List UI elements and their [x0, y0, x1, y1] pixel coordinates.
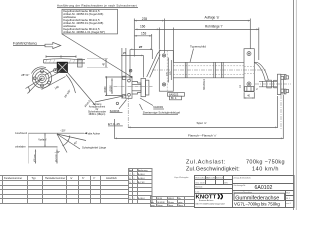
svg-text:von 1: von 1	[286, 203, 290, 205]
bracket top dimension	[46, 56, 76, 58]
svg-text:Anschluß: Anschluß	[106, 176, 117, 180]
diagonal dim 40	[68, 73, 96, 109]
Zul.Achslast text	[186, 159, 285, 172]
svg-text:6A0102: 6A0102	[255, 185, 273, 191]
angle 28 dimension	[21, 73, 42, 94]
wheel flange right	[277, 74, 286, 94]
svg-text:Änderung: Änderung	[138, 169, 148, 172]
svg-text:alte Achse: alte Achse	[88, 132, 101, 136]
svg-text:140 km/h: 140 km/h	[252, 167, 279, 173]
svg-text:Norm: Norm	[178, 204, 183, 207]
angle labels	[55, 128, 79, 153]
dim 27 (middle)	[130, 45, 152, 59]
alte Achse label	[84, 132, 101, 136]
Achtung leader	[95, 95, 127, 102]
dim 166	[135, 25, 159, 31]
flange inner dims	[167, 58, 173, 83]
svg-text:Zweiarmige Schräglenkbügel: Zweiarmige Schräglenkbügel	[143, 110, 181, 114]
frame right border	[293, 0, 295, 210]
svg-text:Spur 'o': Spur 'o'	[197, 121, 208, 125]
label ET 0.-45	[108, 122, 123, 126]
axle right flange plate	[244, 49, 254, 91]
angle diagram: unbeladen line	[15, 147, 58, 149]
middle view hub	[132, 82, 141, 95]
svg-text:Mu: Mu	[178, 198, 181, 200]
revision table	[129, 169, 153, 204]
svg-text:Ausführung der Radschrauben je: Ausführung der Radschrauben je nach Schr…	[57, 3, 137, 7]
dim 235	[134, 17, 164, 22]
svg-text:1: 1	[151, 198, 152, 200]
svg-text:Muster: Muster	[168, 201, 174, 204]
svg-text:Gummifederachse: Gummifederachse	[235, 195, 279, 201]
parts table headers	[4, 176, 117, 180]
middle view wheel disc	[141, 78, 149, 96]
notes leader to wheel studs	[62, 34, 131, 77]
svg-text:28°±1°: 28°±1°	[21, 73, 29, 77]
Fahrtrichtung label	[13, 40, 45, 45]
svg-text:04.03.86: 04.03.86	[157, 202, 164, 204]
title Gummifederachse	[234, 193, 284, 201]
svg-text:Ø130: Ø130	[104, 86, 107, 93]
svg-text:153: 153	[141, 32, 147, 36]
dim 146	[42, 77, 66, 91]
bottom extension lines	[115, 95, 284, 139]
dim 45 deg	[63, 75, 75, 99]
middle view vertical plate edge	[121, 48, 123, 99]
axle left flange plate	[159, 51, 173, 92]
right plate foot	[245, 87, 254, 92]
dim Spur o	[128, 121, 277, 128]
svg-text:Bl. 1: Bl. 1	[286, 198, 290, 200]
dim Flansch-Flansch x	[115, 133, 284, 139]
svg-text:Å 7.03: Å 7.03	[138, 181, 145, 184]
svg-text:Å 08-4: Å 08-4	[138, 173, 145, 176]
stub axle	[255, 80, 291, 88]
svg-text:Zul.Achslast:: Zul.Achslast:	[186, 159, 226, 165]
svg-text:166: 166	[140, 25, 146, 29]
dia dimension arrows	[104, 76, 126, 96]
svg-text:Ø100: Ø100	[109, 85, 112, 92]
Fahrtrichtung arrow	[45, 42, 61, 48]
label 6A0096	[110, 100, 127, 113]
svg-text:Rohrlänge 'l': Rohrlänge 'l'	[205, 24, 223, 28]
hub circles	[32, 67, 52, 88]
left detail view: bracket plate	[44, 59, 86, 63]
dim 27 (axle)	[139, 45, 143, 49]
svg-text:235: 235	[142, 17, 148, 21]
middle view flange plate	[123, 76, 133, 98]
svg-text:25: 25	[123, 51, 127, 55]
svg-text:Urspr./Weitergabe: Urspr./Weitergabe	[174, 176, 188, 179]
svg-text:unbeladen: unbeladen	[15, 147, 26, 149]
svg-text:zunehmend: zunehmend	[15, 133, 28, 135]
title block frame	[195, 176, 295, 208]
svg-text:Herstellernummer: Herstellernummer	[45, 176, 65, 180]
svg-text:Blatt: Blatt	[286, 192, 290, 195]
svg-text:4864.5: 4864.5	[168, 198, 174, 200]
angle diagram: Vorlauf dim	[38, 133, 46, 147]
KNOTT logo	[196, 194, 226, 206]
notes block title	[57, 3, 138, 7]
vertical dim <=55mm	[28, 133, 36, 163]
dim Rohrlaenge l	[159, 24, 258, 30]
angle diagram: fan lines	[57, 134, 86, 153]
dim extension lines top	[134, 19, 258, 63]
svg-text:gez: gez	[151, 202, 154, 204]
svg-text:gepr: gepr	[151, 204, 155, 207]
notes box text	[63, 9, 105, 34]
title block small labels	[195, 176, 290, 205]
svg-text:Å 08-4: Å 08-4	[138, 177, 145, 180]
Achtung note block	[88, 103, 106, 116]
middle view hub centerline	[114, 86, 153, 88]
svg-text:Name: Name	[168, 205, 173, 207]
svg-text:Artikel-Nr. 43686-1.01 (Kegel: Artikel-Nr. 43686-1.01 (Kegel 60°)	[63, 30, 105, 34]
svg-text:60x60x4: 60x60x4	[202, 79, 206, 90]
swing arm	[45, 68, 61, 78]
wheel bolt nubs	[286, 76, 289, 93]
dim Auflage a	[165, 16, 251, 22]
notes box	[62, 9, 118, 34]
svg-text:Auflage 'a': Auflage 'a'	[205, 16, 220, 20]
svg-text:Typenschild: Typenschild	[190, 45, 206, 49]
angle diagram: upper ref line	[15, 133, 84, 135]
svg-text:KNOTT GmbH D-8202 Degerndo: KNOTT GmbH D-8202 Degerndorf	[196, 202, 226, 205]
svg-text:VG7L−700kg bis 750kg: VG7L−700kg bis 750kg	[234, 202, 280, 207]
svg-text:1:2,5: 1:2,5	[195, 192, 199, 194]
vertical dim <=12mm	[54, 147, 57, 163]
middle view arm to axle	[147, 50, 161, 78]
svg-text:Vorlauf: Vorlauf	[38, 137, 46, 141]
svg-text:≤12 mm: ≤12 mm	[54, 154, 57, 162]
svg-text:6A0093: 6A0093	[153, 105, 163, 109]
axle tube	[152, 62, 266, 78]
bracket height dim	[87, 59, 108, 68]
right swing arm	[254, 63, 268, 82]
svg-text:03.96: 03.96	[157, 198, 162, 200]
svg-text:Sicherheitsmutter: Sicherheitsmutter	[88, 111, 106, 114]
svg-text:Bl. 4: Bl. 4	[171, 96, 177, 100]
svg-text:6A0096: 6A0096	[110, 109, 120, 113]
label 6A0023 box	[168, 93, 185, 101]
axle tube cross-section (dark square)	[57, 62, 67, 72]
svg-text:Gew. 10.03: Gew. 10.03	[195, 182, 204, 184]
svg-text:Å 08-4: Å 08-4	[138, 197, 145, 200]
label 6A0093	[140, 98, 164, 109]
svg-text:27: 27	[139, 45, 143, 49]
Typenschild label	[190, 45, 206, 63]
svg-text:Datum: Datum	[157, 204, 163, 207]
svg-text:700kg −750kg: 700kg −750kg	[246, 159, 285, 165]
parts table grid	[0, 172, 129, 204]
svg-text:geän: geän	[178, 202, 182, 204]
svg-text:Bremsen Achsen: Bremsen Achsen	[199, 199, 213, 202]
dim 25 (middle)	[121, 51, 144, 77]
svg-text:≤55 mm: ≤55 mm	[33, 154, 36, 162]
svg-text:Schwinghebel Länge: Schwinghebel Länge	[82, 146, 107, 150]
svg-text:ET 0.-45: ET 0.-45	[108, 122, 120, 126]
svg-text:Zul.Geschwindigkeit:: Zul.Geschwindigkeit:	[186, 167, 240, 173]
svg-text:Rohmaß: Rohmaß	[216, 177, 224, 179]
svg-text:Typ: Typ	[32, 176, 37, 180]
small dims at right hub	[239, 85, 258, 99]
svg-text:280Nm (28kpm): 280Nm (28kpm)	[89, 114, 106, 116]
svg-text:Kundennummer: Kundennummer	[4, 176, 22, 180]
bracket right end piece	[78, 59, 83, 67]
svg-text:Fahrtrichtung: Fahrtrichtung	[13, 40, 37, 45]
svg-text:Maßstab: Maßstab	[195, 186, 202, 189]
label Zweiarmige Schraeglenker	[140, 104, 181, 114]
svg-text:Flansch—Flansch 'x': Flansch—Flansch 'x'	[188, 133, 217, 137]
dim 153	[134, 32, 151, 37]
gez/gepr strip	[151, 197, 195, 207]
svg-text:−20°: −20°	[60, 128, 66, 132]
svg-text:Zeichnungs-Nr.: Zeichnungs-Nr.	[234, 185, 247, 187]
svg-text:Zchngs.Nr./Bestell-Nr.: Zchngs.Nr./Bestell-Nr.	[234, 177, 252, 180]
